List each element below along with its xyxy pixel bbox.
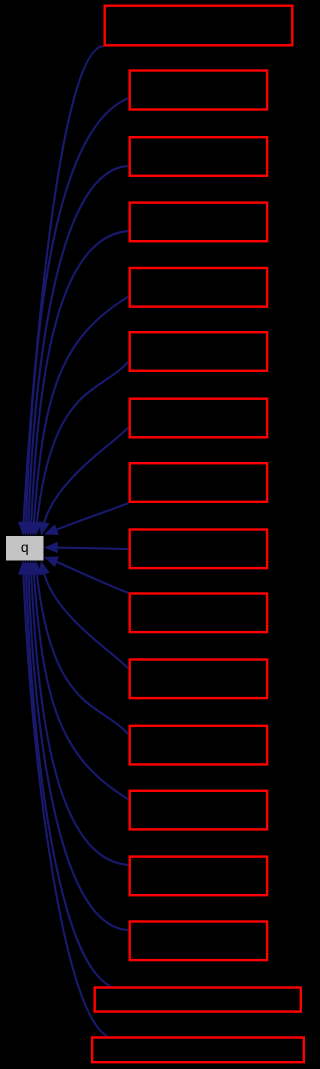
arrowhead edge box17 to q (18, 561, 29, 575)
node box15 (130, 922, 267, 961)
wire edge box1 to q (23, 46, 104, 526)
node box9 (130, 530, 267, 569)
wire edge box6 to q (37, 362, 129, 526)
node box3 (130, 137, 267, 176)
node box2 (130, 71, 267, 110)
wire edge box7 to q (43, 427, 128, 526)
node q (6, 536, 44, 561)
wire edge box13 to q (34, 571, 129, 800)
node box11 (130, 660, 267, 699)
node box14 (130, 857, 267, 896)
arrowhead edge box9 to q (44, 542, 58, 553)
node box16 (95, 988, 301, 1012)
arrowhead edge box3 to q (23, 522, 34, 536)
arrowhead edge box16 to q (20, 561, 31, 575)
node box4 (130, 203, 267, 242)
arrowhead edge box7 to q (39, 521, 50, 536)
node box7 (130, 399, 267, 438)
wire edge box4 to q (31, 231, 129, 526)
wire edge box16 to q (26, 571, 110, 986)
node box17 (92, 1038, 304, 1063)
wire edge box3 to q (28, 166, 128, 526)
arrowhead edge box6 to q (31, 522, 42, 537)
wire edge box12 to q (37, 571, 129, 735)
wire edge box9 to q (55, 548, 129, 549)
wire edge box10 to q (54, 561, 129, 593)
arrowhead edge box14 to q (26, 561, 37, 575)
wire edge box15 to q (28, 571, 128, 930)
arrowhead edge box10 to q (44, 557, 59, 568)
wire edge box5 to q (34, 297, 129, 526)
node box8 (130, 463, 267, 502)
arrowhead edge box5 to q (28, 522, 39, 536)
arrowhead edge box13 to q (28, 561, 39, 575)
wire edge box14 to q (31, 571, 129, 865)
svg-text:q: q (21, 539, 29, 555)
arrowhead edge box11 to q (39, 561, 50, 576)
arrowhead edge box15 to q (23, 561, 34, 575)
node box13 (130, 791, 267, 830)
arrowhead edge box8 to q (44, 524, 59, 535)
arrowhead edge box12 to q (31, 561, 42, 576)
wire edge box17 to q (23, 571, 107, 1036)
wire edge box11 to q (43, 571, 128, 669)
wire edge box8 to q (54, 503, 129, 531)
arrowhead edge box1 to q (18, 522, 29, 536)
wire edge box2 to q (26, 98, 129, 526)
node box10 (130, 594, 267, 633)
node box1 (105, 6, 293, 46)
node box12 (130, 726, 267, 765)
node box5 (130, 268, 267, 307)
arrowhead edge box4 to q (26, 522, 37, 536)
node box6 (130, 332, 267, 371)
arrowhead edge box2 to q (20, 522, 31, 536)
